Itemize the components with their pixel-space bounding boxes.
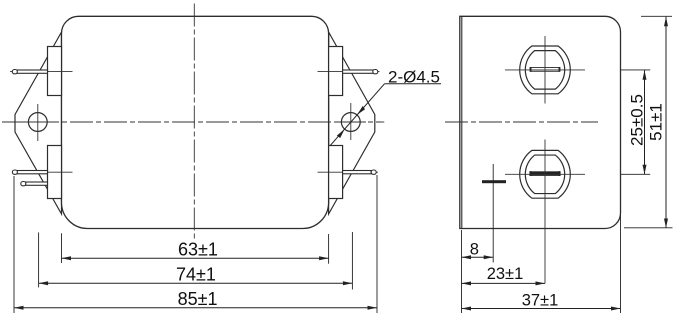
dimension 63+-1 (62, 257, 329, 259)
mounting hole left (28, 113, 47, 132)
svg-text:2-Ø4.5: 2-Ø4.5 (388, 67, 440, 86)
pin centerline lower-left (24, 171, 73, 173)
crosshair terminal lower + extension down to 23 dim (544, 140, 546, 284)
svg-text:8: 8 (470, 241, 479, 259)
terminal block upper-left (48, 47, 62, 96)
pin centerline upper-right (318, 71, 380, 73)
dimension 37+-1 (462, 308, 621, 310)
terminal block lower-left (48, 146, 62, 199)
screw terminal upper inner (525, 51, 564, 90)
terminal block lower-right (329, 146, 343, 199)
svg-text:63±1: 63±1 (178, 239, 218, 259)
pin lower-left long (12, 170, 47, 174)
side view pin (edge-on) (482, 180, 506, 183)
vertical center line (193, 4, 195, 240)
leader arrowhead upper (357, 106, 365, 115)
leader arrowhead lower (337, 129, 345, 138)
hole crosshair left (37, 104, 39, 141)
extension lines bottom left view (14, 175, 377, 313)
svg-text:25±0.5: 25±0.5 (628, 94, 647, 146)
extension lines side view (462, 16, 673, 313)
pin upper-right (343, 70, 378, 74)
filter body (front view) (62, 16, 329, 228)
pin centerline lower-right (318, 171, 379, 173)
pin lower-right (343, 170, 377, 174)
hole crosshair right horizontal solid (335, 121, 366, 123)
dimension 8 (462, 256, 494, 258)
pin lower-left short (21, 182, 48, 186)
terminal block upper-right (329, 47, 343, 96)
left mounting flange (15, 32, 62, 214)
crosshair terminal upper (544, 36, 546, 104)
svg-text:51±1: 51±1 (647, 103, 666, 141)
screw slot upper (530, 67, 560, 72)
pin upper-left (12, 70, 47, 74)
side plate inner edge (461, 16, 463, 228)
hole crosshair right (350, 103, 352, 140)
dimension 85+-1 (14, 307, 377, 309)
horizontal center line (2, 121, 384, 123)
dimension 51+-1 (665, 17, 667, 228)
screw slot lower (filled) (530, 171, 560, 176)
dimension 74+-1 (39, 282, 353, 284)
svg-text:23±1: 23±1 (487, 265, 524, 283)
screw terminal lower outer (520, 150, 571, 198)
svg-text:85±1: 85±1 (178, 289, 218, 309)
side center line (445, 121, 598, 123)
screw terminal lower inner (525, 155, 564, 194)
dimension 23+-1 (462, 282, 546, 284)
screw terminal upper outer (520, 46, 571, 94)
pin centerline upper-left (10, 71, 73, 73)
svg-text:74±1: 74±1 (176, 265, 216, 285)
right mounting flange (329, 32, 375, 214)
pin extension line vertical (492, 164, 494, 262)
hole crosshair left horizontal solid (22, 121, 53, 123)
side body outline (460, 16, 621, 228)
leader 2-d4.5 (330, 84, 441, 146)
svg-text:37±1: 37±1 (522, 291, 559, 309)
dimension 25+-0.5 (644, 70, 646, 174)
mounting hole right (341, 113, 360, 132)
